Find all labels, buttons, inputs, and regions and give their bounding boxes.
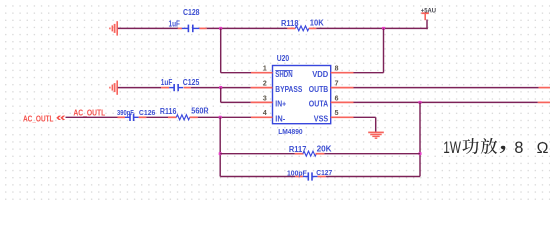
wire (198, 116, 251, 118)
svg-text:5: 5 (335, 110, 339, 117)
capacitor C125 (161, 84, 191, 91)
pin name SHDN with overbar (275, 70, 293, 79)
wire (220, 28, 222, 72)
svg-text:1uF: 1uF (161, 78, 173, 87)
wire (118, 27, 178, 29)
pin stub off-sheet OUTA (538, 101, 550, 103)
pin 4 stub (251, 116, 273, 118)
junction node feedback right (418, 152, 421, 155)
op-amp U20 LM4890 body (273, 66, 331, 124)
svg-text:C127: C127 (316, 168, 332, 177)
svg-text:R117: R117 (289, 145, 307, 154)
svg-text:1uF: 1uF (169, 19, 181, 28)
svg-text:390pF: 390pF (117, 108, 134, 117)
svg-text:C125: C125 (183, 78, 200, 87)
power +5AU bar symbol (421, 13, 428, 20)
wire (118, 87, 161, 89)
wire (316, 27, 428, 29)
wire OUTB net (354, 87, 539, 89)
pin 1 stub (251, 72, 273, 74)
annotation 1W amplifier 8 ohm (443, 138, 548, 157)
junction node OUTA feedback (418, 101, 421, 104)
svg-text:SHDN: SHDN (275, 70, 293, 79)
wire feedback right vertical (419, 102, 421, 176)
svg-text:R116: R116 (160, 107, 177, 116)
svg-text:OUTA: OUTA (309, 100, 329, 109)
capacitor C128 (178, 25, 207, 33)
svg-text:4: 4 (263, 110, 267, 117)
off-sheet connector (top input) (116, 21, 118, 35)
svg-text:LM4890: LM4890 (278, 127, 302, 136)
wire (66, 116, 118, 118)
wire (426, 20, 428, 30)
pin 2 stub (251, 87, 273, 89)
capacitor C126 (118, 114, 147, 121)
port AC_OUTL (23, 112, 66, 124)
resistor R117 (295, 151, 325, 156)
wire OUTA net (354, 101, 538, 103)
junction node BYPASS (219, 86, 222, 89)
wire VSS to ground (354, 117, 376, 132)
svg-text:AC_OUTL: AC_OUTL (73, 108, 105, 117)
wire (220, 88, 222, 103)
svg-text:100pF: 100pF (287, 168, 307, 177)
resistor R116 (168, 115, 198, 120)
wire C127 row left (220, 176, 295, 178)
wire C127 row right (326, 176, 420, 178)
wire R117 row right (324, 153, 420, 155)
svg-text:1: 1 (263, 66, 267, 73)
wire feedback left vertical (219, 117, 221, 176)
svg-text:2: 2 (263, 81, 267, 88)
svg-text:OUTB: OUTB (309, 85, 329, 94)
ground (368, 132, 384, 138)
pin 3 stub (251, 101, 273, 103)
svg-text:AC_OUTL: AC_OUTL (23, 114, 54, 123)
svg-text:3: 3 (263, 95, 267, 102)
junction node IN- (219, 116, 222, 119)
resistor R118 (287, 26, 316, 31)
svg-text:C128: C128 (183, 8, 200, 17)
svg-text:C126: C126 (139, 108, 156, 117)
wire (146, 116, 168, 118)
svg-text:7: 7 (335, 81, 339, 88)
junction node VDD (382, 27, 385, 30)
svg-text:IN+: IN+ (275, 100, 286, 109)
wire (191, 87, 251, 89)
svg-text:560R: 560R (191, 107, 209, 116)
svg-text:8: 8 (335, 66, 339, 73)
pin stub off-sheet OUTB (539, 87, 550, 89)
off-sheet connector (bypass input) (116, 80, 118, 94)
pin 7 stub (331, 87, 354, 89)
capacitor C127 (295, 172, 326, 180)
svg-text:R118: R118 (281, 19, 299, 28)
svg-text:6: 6 (335, 95, 339, 102)
svg-text:1W: 1W (443, 138, 461, 157)
svg-text:20K: 20K (317, 145, 332, 154)
wire (207, 27, 288, 29)
wire (221, 72, 251, 74)
svg-text:8: 8 (514, 139, 523, 157)
svg-text:10K: 10K (310, 19, 324, 28)
svg-text:«: « (56, 112, 66, 124)
junction node SHDN-RC (219, 27, 222, 30)
wire (221, 101, 251, 103)
svg-text:+5AU: +5AU (421, 7, 437, 14)
pin 6 stub (331, 101, 354, 103)
wire VDD net (354, 28, 384, 72)
svg-text:VDD: VDD (312, 70, 328, 79)
pin 8 stub (331, 72, 354, 74)
svg-text:IN-: IN- (275, 114, 285, 123)
junction node feedback left (219, 152, 222, 155)
svg-text:Ω: Ω (537, 140, 549, 157)
svg-text:BYPASS: BYPASS (275, 85, 302, 94)
svg-text:VSS: VSS (314, 114, 328, 123)
svg-text:U20: U20 (277, 54, 290, 63)
pin 5 stub (331, 116, 354, 118)
wire R117 row left (220, 153, 295, 155)
